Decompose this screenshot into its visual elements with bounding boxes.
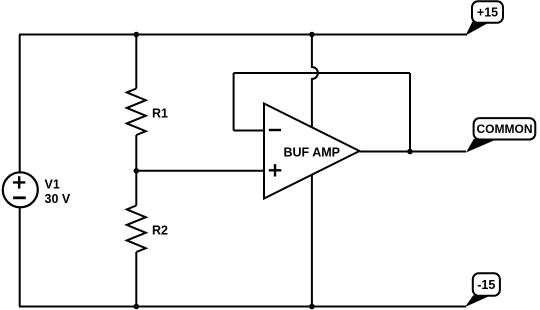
op-amp inverting input minus symbol <box>269 129 281 131</box>
junction node dot top at middle rail <box>309 32 315 38</box>
net flag COMMON box <box>474 118 536 139</box>
junction node dot top at R column <box>134 32 140 38</box>
wire noninverting input (node between R1 and R2 to op-amp +) <box>136 170 264 172</box>
svg-text:V1: V1 <box>45 178 60 192</box>
op-amp U1 body <box>264 104 360 199</box>
voltage source V1 minus sign <box>13 196 26 199</box>
svg-text:BUF AMP: BUF AMP <box>284 145 340 159</box>
wire left rail lower <box>19 207 21 306</box>
net flag -15 tail <box>465 295 489 307</box>
svg-text:30 V: 30 V <box>45 192 71 206</box>
net flag COMMON tail <box>466 139 495 153</box>
net flag +15 tail <box>466 22 490 36</box>
wire top rail <box>19 34 467 36</box>
svg-text:R1: R1 <box>152 106 168 120</box>
wire resistor column: top to R1 <box>135 35 137 89</box>
junction node dot bottom at R column <box>134 304 140 310</box>
wire feedback right vertical <box>409 73 411 152</box>
junction node dot output/feedback <box>407 149 413 155</box>
svg-text:+15: +15 <box>477 6 498 20</box>
svg-text:COMMON: COMMON <box>477 122 533 136</box>
wire left rail upper <box>19 35 21 173</box>
wire feedback left vertical <box>233 73 235 131</box>
svg-text:-15: -15 <box>477 278 495 292</box>
junction node dot between R1 and R2 <box>134 168 140 174</box>
voltage source V1 plus sign <box>13 176 25 188</box>
net flag +15 box <box>472 1 503 23</box>
op-amp noninverting input plus symbol <box>269 164 282 176</box>
wire resistor column: R1 to R2 <box>135 135 137 206</box>
wire resistor column: R2 to bottom <box>135 252 137 307</box>
svg-text:R2: R2 <box>152 223 168 237</box>
net flag -15 box <box>473 273 500 296</box>
wire bottom rail <box>19 306 466 308</box>
resistor R2 <box>127 206 146 253</box>
junction node dot bottom at middle rail <box>309 304 315 310</box>
voltage source V1 circle <box>3 172 38 207</box>
wire feedback top horizontal <box>234 72 410 74</box>
wire inverting input <box>234 130 264 132</box>
wire middle vertical rail with hop over feedback <box>312 35 318 307</box>
resistor R1 <box>127 89 146 136</box>
wire output <box>360 151 467 153</box>
